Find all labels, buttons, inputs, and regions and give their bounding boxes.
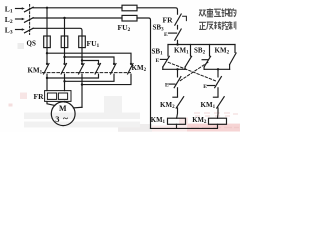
互 [214,9,221,16]
wire FR to motor mid [64,100,66,103]
thermal relay FR heater 2 [58,93,67,99]
svg-text:E: E [165,83,169,89]
watermark pink band bottom right [187,124,240,132]
switch QS blade 2 [25,18,34,23]
thermal relay FR box [45,91,71,102]
button SB2 NC in KM1 branch [177,69,179,77]
wire phase-b drop [64,18,66,64]
fuse FU2-1 [122,5,137,11]
button SB3 actuator [169,32,177,34]
fuse FU2-2 [122,15,137,21]
wire bus L1 to FU2 [137,8,178,14]
node bus-a [46,7,48,9]
wire coil KM1 bottom [176,124,178,128]
重 [207,8,214,16]
coil KM2 [209,118,227,124]
button SB1 start-fwd branch [167,45,169,57]
linkage SB1 dashed [168,62,215,81]
wire L3 lead [16,29,23,31]
双 [199,10,206,16]
svg-text:3: 3 [55,114,59,124]
contactor KM1 main contact 3 [81,63,83,65]
svg-text:M: M [59,104,67,113]
contactor KM1 main contact 2 [63,63,65,65]
contactor KM2 main contact 3 [130,63,132,65]
fuse FU1-a [44,36,51,48]
wire KM2-3 out crossover to phase-c [82,74,131,84]
wire bus L2 out to control rail [137,18,151,128]
wire phase-c drop [81,36,83,64]
coil KM1 [168,118,186,124]
wire tee phase-c to KM2 [82,61,99,64]
wire to motor right [73,106,82,109]
wire FR to motor left [47,101,55,105]
svg-text:E: E [203,84,207,90]
svg-text:E: E [164,32,168,38]
button SB2 start-rev branch [209,45,211,57]
fuse FU1-c [79,36,86,48]
wire SB3 to bus [177,40,179,44]
node L1 hinge arrow [22,7,25,9]
wire bus L3 [33,28,82,36]
node join-b [63,80,65,82]
node join-a [46,77,48,79]
fuse FU1-b [61,36,68,48]
contactor KM1 main contact 1 [46,63,48,65]
的 [229,8,236,16]
contactor KM2 main contact 2 [113,63,115,65]
contact KM1 aux branch [190,45,192,57]
正 [199,22,206,29]
switch QS linkage dashed [29,5,31,35]
node tee-c [81,59,83,61]
wire coil KM2 bottom [217,124,219,128]
button SB3 stop NC [175,29,181,40]
relay FR NC contact [175,14,181,25]
button SB1 actuator [160,58,166,60]
wire KM2-1 out crossover to phase-a [47,74,99,78]
wire bus L1 [33,7,122,9]
wire tee phase-b to KM2 [65,57,115,64]
contactor KM2 main contact 1 [97,63,99,65]
svg-text:E: E [156,58,160,64]
watermark pink dot left [9,104,13,107]
制 [229,21,236,29]
linkage KM1-KM2 main dashed [43,72,131,74]
button SB1 NC in KM2 branch [217,69,219,77]
button SB2 actuator [202,59,208,61]
title line 1: 双重互锁的 (hand-drawn glyphs) [199,8,236,16]
node L3 hinge arrow [22,28,25,30]
contact KM2 aux branch [234,45,236,53]
svg-text:FR: FR [34,92,45,101]
控 [222,21,229,29]
wire KM1-3 out [81,74,83,107]
wire node1 connector [163,68,185,70]
反 [207,22,214,29]
watermark pale blob near coil1 [179,118,188,126]
node L2 hinge arrow [22,18,25,20]
switch QS blade 3 [25,28,34,33]
watermark gray blob left edge [18,43,25,49]
watermark gray stripes bottom left [24,113,140,120]
switch QS blade 1 [25,7,34,12]
锁 [222,8,229,16]
wire KM1-2 out [64,74,66,90]
wire KM1-1 out [46,74,48,90]
wire L1 lead [16,8,23,10]
node bus-b [63,17,65,19]
motor M circle [51,102,75,126]
wire node2 connector [204,68,230,70]
node 2 [217,68,219,70]
linkage SB2 dashed [180,62,208,81]
watermark ghost text row bottom right [194,113,238,116]
watermark gray wash mid [104,96,122,113]
node join-c [81,83,83,85]
watermark pink smudge mid-left [20,93,27,100]
node 1 [176,68,178,70]
title line 2: 正反转控制 (hand-drawn glyphs) [199,21,236,29]
contact KM2 NC interlock [173,96,178,98]
svg-text:QS: QS [27,40,36,48]
svg-text:FR: FR [163,16,174,25]
wire L2 lead [16,18,23,20]
thermal relay FR heater 1 [47,93,56,99]
转 [214,22,221,30]
wire FR to SB3 [177,25,179,29]
wire control top bus [168,44,235,46]
node tee-a [46,52,48,54]
wire phase-a drop [46,8,48,64]
wire tee phase-a to KM2 [47,53,131,64]
node tee-b [63,56,65,58]
wire KM2-2 out crossover to phase-b [65,74,115,81]
svg-text:~: ~ [63,115,68,125]
wire bus L2 [33,17,122,19]
node SB3 junction [176,43,178,45]
wire bottom bus [151,127,218,129]
contact KM1 NC interlock [213,96,218,98]
